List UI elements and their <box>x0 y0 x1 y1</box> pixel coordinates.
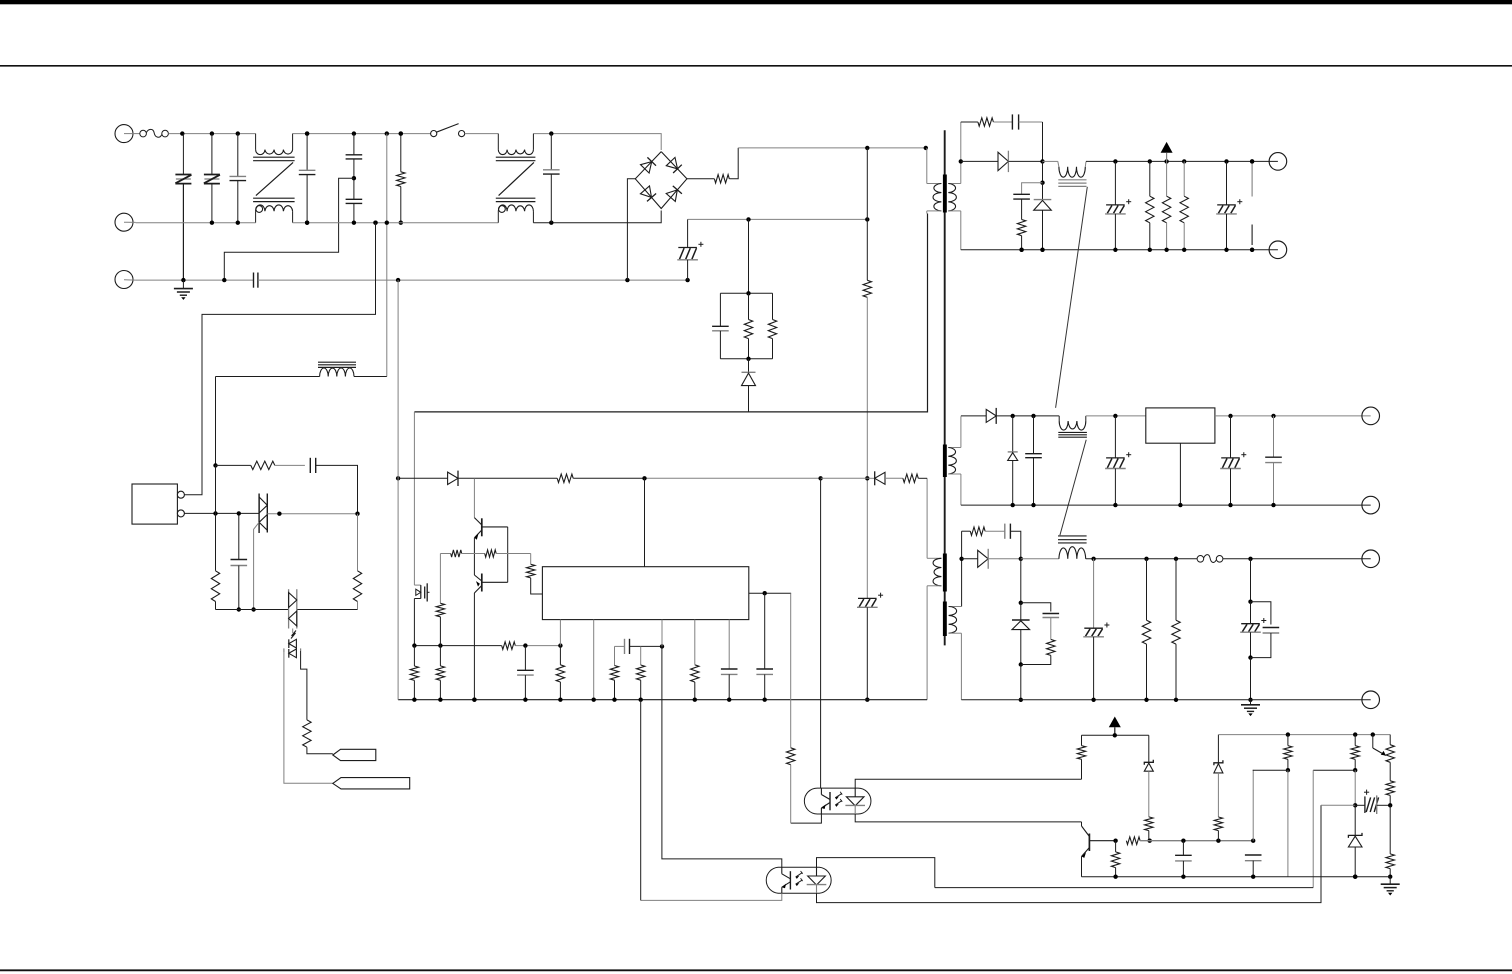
wire R21 down <box>614 680 616 700</box>
wire RC row b <box>275 464 305 466</box>
node C17 top <box>237 511 241 515</box>
wire PC1 emitter resistor feed <box>790 593 792 748</box>
arrow output 1 <box>1161 142 1173 162</box>
wire sense row <box>414 645 501 647</box>
triac Q4 <box>259 494 267 534</box>
wire R17 mid <box>439 617 441 646</box>
varistor RV1 (L-PE) <box>175 134 191 184</box>
node base bus <box>1216 839 1220 843</box>
wire trigger mid drop <box>215 465 217 570</box>
node out3 zener <box>1019 601 1023 605</box>
node C25 bot <box>1248 655 1252 659</box>
resistor R19 <box>410 666 418 680</box>
wire Q3 source <box>413 599 415 646</box>
potentiometer VR1 element <box>1386 745 1394 763</box>
node snubber top <box>746 291 750 295</box>
node L rail 2 <box>352 131 356 135</box>
resistor R15 (IC pin) <box>527 564 535 578</box>
node N rail 2 <box>385 221 389 225</box>
node fb right top <box>1353 732 1357 736</box>
wire R27 to lug <box>307 747 333 754</box>
node winding3 tap <box>959 557 963 561</box>
wire IC pin2 <box>593 620 595 700</box>
wire R15 feed <box>530 554 532 565</box>
node snubber bottom <box>746 357 750 361</box>
wire snub1 left <box>961 121 978 123</box>
node N rail 2 <box>352 221 356 225</box>
node Vcc cap top <box>865 476 869 480</box>
node D6 b <box>1031 414 1035 418</box>
wire PC2 cathode <box>817 805 1322 902</box>
wire ref row <box>1321 804 1355 806</box>
node sense row <box>558 643 562 647</box>
wire VR1 to R40 <box>1389 762 1391 781</box>
node Q7 base r <box>1113 839 1117 843</box>
lug terminal E1 <box>333 749 376 760</box>
node pin2 junction <box>213 511 217 515</box>
wire RC row a <box>216 464 251 466</box>
node bulk bus end <box>865 217 869 221</box>
node out1 return <box>1224 248 1228 252</box>
capacitor C23 <box>1043 614 1060 618</box>
wire Ct left leg <box>614 646 616 665</box>
capacitor C28 <box>1245 855 1262 877</box>
node gate drop <box>251 607 255 611</box>
node out3 gnd b <box>1248 698 1252 702</box>
resistor R28 (snub3) <box>970 527 985 535</box>
capacitor C29 (ref electrolytic) <box>1355 790 1390 814</box>
wire N rail seg3 <box>533 211 661 223</box>
diode ZD3 <box>1012 620 1030 630</box>
wire BR1 minus <box>627 179 635 280</box>
node CX2 top <box>305 131 309 135</box>
node ZD1 gnd <box>1040 248 1044 252</box>
diode D6 (output 2) <box>961 408 1059 424</box>
wire ZD4 down <box>1148 771 1150 817</box>
wire out3 line c <box>1223 558 1371 560</box>
node PE <box>625 278 629 282</box>
optocoupler PC1 <box>804 788 871 814</box>
wire PC1 cathode corner <box>1081 822 1083 826</box>
node out3 rc <box>1019 662 1023 666</box>
node fb common <box>1353 875 1357 879</box>
capacitor C27 <box>1175 841 1192 877</box>
wire R26 down <box>357 602 359 610</box>
wire primary ground left riser <box>397 280 399 700</box>
node D7 out <box>1019 557 1023 561</box>
node R1 bot <box>399 221 403 225</box>
terminal output2- <box>1362 496 1380 514</box>
capacitor C11 (out1 electrolytic) <box>1216 161 1242 249</box>
node ZD6 gnd <box>1353 875 1357 879</box>
wire driver feed <box>473 478 475 517</box>
inductor L2 (trigger) <box>216 362 387 376</box>
node pgnd <box>693 698 697 702</box>
node out2 return <box>1228 503 1232 507</box>
node sense row <box>412 643 416 647</box>
wire R40 down <box>1389 795 1391 805</box>
node pgnd <box>523 698 527 702</box>
capacitor C25 (out3) <box>1240 602 1266 658</box>
resistor R11 (Vcc) <box>557 474 573 482</box>
diode D2 (clamp) <box>742 359 756 412</box>
node out2 rail a <box>1113 414 1117 418</box>
node base bus a <box>1148 839 1152 843</box>
wire N rail seg2 <box>293 222 499 224</box>
resistor R24 (trigger RC) <box>251 461 275 469</box>
wire C25 feed <box>1250 559 1252 602</box>
node pgnd <box>558 698 562 702</box>
wire gate row <box>440 553 450 555</box>
wire ZD3 leads <box>1020 603 1022 665</box>
node out1 return <box>1019 248 1023 252</box>
transformer T1 core bar 1 <box>943 175 947 213</box>
fuse F1 <box>140 129 169 137</box>
diode D7 (output 3) <box>962 549 1021 569</box>
node out1 return <box>1250 248 1254 252</box>
varistor RV2 (L-N) <box>204 134 220 184</box>
capacitor C22 (snub3) <box>985 524 1010 539</box>
footer rule <box>0 969 1512 971</box>
node doubler tap <box>373 221 377 225</box>
capacitor C8 (snubber) <box>993 114 1018 129</box>
wire R34 down <box>1148 831 1150 841</box>
diode ZD6 (TL431) <box>1348 805 1362 876</box>
node triac1 out <box>277 512 281 516</box>
capacitor C19 (out2) <box>1105 416 1131 505</box>
arrow standby supply <box>1109 717 1121 736</box>
resistor R1 (L-N) <box>397 134 405 223</box>
node DC+ a <box>865 146 869 150</box>
node L rail 2 <box>399 131 403 135</box>
wire drain riser <box>413 412 415 585</box>
wire Q7 emitter down <box>1081 857 1083 877</box>
node base bus <box>1251 839 1255 843</box>
diode ZD4 <box>1144 735 1153 771</box>
capacitor CY1 <box>346 134 363 179</box>
resistor R31 <box>1172 559 1180 700</box>
wire PE seg2 <box>258 279 688 281</box>
wire CY mid to PE <box>224 178 354 280</box>
lug terminal E2 <box>333 778 410 789</box>
capacitor C24 (out3) <box>1083 559 1109 700</box>
wire out1 rail <box>1086 160 1278 162</box>
node fb common <box>1113 875 1117 879</box>
node triac1 right <box>355 512 359 516</box>
node fb right top <box>1371 732 1375 736</box>
wire out3 line <box>1021 558 1059 560</box>
wire RV1 to PE <box>182 184 184 281</box>
wire out3 ground rail <box>961 699 1370 701</box>
wire C9 to R7 <box>1021 199 1023 219</box>
ground feedback earth <box>1381 877 1400 896</box>
resistor R21 <box>610 666 618 681</box>
node sense row <box>523 643 527 647</box>
connector CN1 pin1 <box>177 491 184 498</box>
leader line B <box>1060 440 1086 536</box>
node dashed top <box>1250 159 1254 163</box>
transformer T1 core bar 2 <box>943 445 947 478</box>
diode ZD2 <box>1008 416 1018 505</box>
resistor R3 (startup) <box>863 280 871 297</box>
node C25 top <box>1248 600 1252 604</box>
resistor R39 <box>1351 746 1359 760</box>
resistor R33 <box>1077 746 1085 760</box>
wire snubber feed <box>748 219 750 293</box>
wire Vcc line left <box>398 477 448 479</box>
resistor R29 <box>1047 639 1055 655</box>
node L rail <box>180 131 184 135</box>
wire L rail seg1 <box>168 133 255 135</box>
wire PC1 cathode <box>855 814 1081 822</box>
wire PC2 collector <box>662 646 782 867</box>
transistor Q7 (NPN feedback) <box>1082 826 1116 858</box>
node out3 ground rail <box>1091 698 1095 702</box>
node out1 rail <box>1250 159 1254 163</box>
title bar <box>0 0 1512 4</box>
wire out1 return <box>961 249 1278 251</box>
resistor R40 <box>1386 781 1394 796</box>
capacitor C6 (Vcc electrolytic) <box>857 478 883 699</box>
wire gate row b <box>462 553 485 555</box>
resistor R20 (IC pin1) <box>556 665 564 682</box>
wire L rail seg4 <box>533 134 661 150</box>
node pgnd <box>639 698 643 702</box>
wire IC right pin <box>749 592 791 594</box>
resistor R6 (snubber) <box>978 118 994 126</box>
wire R20 leads <box>559 646 561 700</box>
terminal J2 line <box>115 213 136 231</box>
node out2 return <box>1178 503 1182 507</box>
inductor L1 <box>1043 161 1087 186</box>
resistor R18 <box>436 666 444 680</box>
node N rail <box>210 221 214 225</box>
terminal J3 (PE) line <box>115 271 136 289</box>
inductor L4 (out3) <box>1058 536 1087 559</box>
wire fb sense line <box>935 887 1313 889</box>
node Vcc opto <box>818 476 822 480</box>
node out1 rail <box>1164 159 1168 163</box>
wire triac1 out <box>267 513 357 515</box>
wire VR1 top <box>1389 735 1391 745</box>
wire snub1 right <box>1019 122 1043 161</box>
wire gate row c <box>496 553 531 555</box>
resistor R37 <box>1214 817 1222 831</box>
resistor R16 (row) <box>502 642 516 650</box>
wire out1 dashed option <box>1251 163 1253 245</box>
potentiometer VR1 wiper <box>1373 735 1386 756</box>
capacitor C26 <box>1263 628 1280 634</box>
wire R22 top <box>640 646 642 665</box>
wire opto1 collector riser <box>820 478 822 788</box>
wire C28 top <box>1252 770 1254 841</box>
node TL431 ref <box>1353 803 1357 807</box>
wire Ct row <box>615 645 625 647</box>
node out2 return <box>1011 503 1015 507</box>
node L rail 2 <box>385 131 389 135</box>
capacitor C5 (bulk electrolytic) <box>677 219 703 280</box>
resistor R17 <box>436 603 444 617</box>
node out3 ground rail <box>1174 698 1178 702</box>
wire snub3 mid <box>966 530 970 532</box>
wire snub3 right <box>1010 531 1020 559</box>
wire fb row 770 b <box>1313 769 1355 771</box>
node out1 return <box>1182 248 1186 252</box>
wire out3 gnd drop <box>1250 658 1252 700</box>
resistor R13 (gate) <box>451 550 462 557</box>
diode D3 (output 1) <box>961 151 1043 172</box>
transformer T1 primary winding <box>927 148 942 214</box>
wire trigger bottom row <box>216 609 289 611</box>
wire fb row 770 <box>1253 769 1288 771</box>
node out1 return <box>1113 248 1117 252</box>
wire out3 line b <box>1086 558 1197 560</box>
terminal output3 gnd <box>1362 691 1380 709</box>
wire snubber box bottom <box>720 358 772 360</box>
wire startup mid <box>866 297 868 478</box>
resistor R34 <box>1145 817 1153 831</box>
wire R41 leads <box>1389 805 1391 876</box>
node out3 line c <box>1248 557 1252 561</box>
node out3 line b <box>1144 557 1148 561</box>
wire R18 leads <box>439 646 441 700</box>
wire R32 down <box>790 765 792 823</box>
wire N rail seg1 <box>136 222 256 224</box>
wire out2 rail b <box>1215 415 1371 417</box>
wire PC1 anode <box>855 779 1081 788</box>
node PE <box>685 278 689 282</box>
capacitor C9 <box>1013 194 1030 199</box>
wire C26 branch <box>1251 602 1271 625</box>
header rule <box>0 65 1512 67</box>
wire L2 left drop <box>215 377 217 466</box>
connector CN1 box <box>132 484 177 524</box>
wire R26 top <box>357 514 359 571</box>
resistor R22 <box>637 665 645 680</box>
wire primary ground rail <box>398 699 927 701</box>
node out1 return <box>1148 248 1152 252</box>
node out3 line b <box>1174 557 1178 561</box>
node bulk bus <box>746 217 750 221</box>
wire out3 to gnd <box>1020 665 1022 700</box>
node pgnd <box>727 698 731 702</box>
resistor R2 (inrush) <box>714 175 729 183</box>
node L rail <box>210 131 214 135</box>
connector CN1 pin2 <box>177 510 184 517</box>
wire Q2 to ground <box>473 593 475 700</box>
node D6 a <box>1011 414 1015 418</box>
resistor R7 <box>1017 220 1025 236</box>
wire D3 node down <box>1042 161 1044 182</box>
capacitor CY2 <box>346 178 363 223</box>
transistor Q1 (NPN driver) <box>474 518 507 540</box>
node R1 <box>399 131 403 135</box>
node Vcc left <box>396 476 400 480</box>
node L rail 3 <box>549 131 553 135</box>
capacitor C20 (out2) <box>1220 416 1246 505</box>
wire Q5 to sidac <box>292 629 294 634</box>
switch SW1 <box>431 124 465 137</box>
terminal output2+ <box>1362 407 1380 425</box>
wire triac1 gate <box>254 522 260 609</box>
wire R37 down <box>1217 831 1219 841</box>
node out1 rail <box>1182 159 1186 163</box>
wire base bus <box>1140 840 1253 842</box>
wire U2 gnd pin <box>1179 443 1181 505</box>
node out1 filter <box>1040 181 1044 185</box>
triac Q5 (diac) <box>289 589 297 628</box>
wire PC2 emitter riser <box>640 700 642 901</box>
diode ZD5 <box>1214 735 1223 773</box>
transformer T1 core bar 4 <box>943 602 947 637</box>
node out1 rail <box>1224 159 1228 163</box>
node out3 gnd <box>1019 698 1023 702</box>
wire R17 top <box>439 554 441 604</box>
capacitor C16 (trigger RC) <box>310 458 315 473</box>
capacitor CY3 (PE series) <box>254 273 258 288</box>
resistor R10 <box>1180 161 1188 249</box>
common-mode choke LF1 <box>253 134 295 223</box>
wire doubler link <box>184 223 375 495</box>
resistor R12 (aux) <box>903 474 918 482</box>
node PE <box>396 278 400 282</box>
capacitor CX1 <box>230 134 247 223</box>
wire R33 to PC1 anode <box>1081 759 1083 779</box>
wire DC+ rail <box>738 147 927 149</box>
wire PE seg1 <box>136 279 254 281</box>
capacitor CX3 <box>543 134 560 223</box>
wire PC1 emitter <box>791 814 822 823</box>
node out2 return <box>1113 503 1117 507</box>
common-mode choke LF2 <box>496 134 536 223</box>
resistor R9 (bleeder) <box>1162 161 1170 249</box>
wire IC pin1 <box>559 620 561 646</box>
wire C23 to R29 <box>1050 618 1052 640</box>
capacitor C12 <box>517 646 534 700</box>
wire aux to winding <box>918 477 927 479</box>
node Vcc cap gnd <box>865 698 869 702</box>
wire R2 to DC+ rail <box>729 148 738 179</box>
node pgnd <box>612 698 616 702</box>
wire R38 leads <box>1287 735 1289 771</box>
wire out2 return <box>961 504 1371 506</box>
wire RV2 to N <box>211 184 213 223</box>
wire R7 down <box>1021 236 1023 250</box>
fuse F2 (out3) <box>1197 555 1223 563</box>
node out2 rail b <box>1271 414 1275 418</box>
node out3 line b <box>1091 557 1095 561</box>
node out3 ground rail <box>1144 698 1148 702</box>
capacitor C7 (clamp) <box>712 293 729 359</box>
wire BR1 plus <box>687 178 715 180</box>
node CX2 bottom <box>305 221 309 225</box>
wire R33 top <box>1081 735 1083 745</box>
resistor R41 <box>1386 854 1394 869</box>
node PE <box>181 278 185 282</box>
node out1 return <box>1040 248 1044 252</box>
inductor L3 (out2) <box>1058 416 1087 437</box>
node C17 bot <box>237 607 241 611</box>
wire L rail seg3 <box>465 133 499 135</box>
node pgnd <box>438 698 442 702</box>
node R39 tap <box>1353 768 1357 772</box>
wire PC2 anode <box>817 858 935 888</box>
node RC row <box>213 463 217 467</box>
wire IC feedback pin <box>644 478 646 566</box>
terminal output1- <box>1269 241 1287 259</box>
diode BR1-D2 <box>666 186 682 202</box>
wire C26 down <box>1251 633 1271 658</box>
